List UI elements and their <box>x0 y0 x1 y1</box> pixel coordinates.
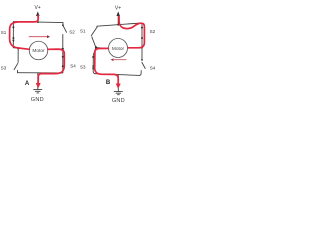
svg-text:S2: S2 <box>69 29 75 34</box>
svg-text:GND: GND <box>31 97 44 103</box>
svg-text:GND: GND <box>112 98 125 104</box>
svg-text:B: B <box>106 80 111 86</box>
svg-text:Motor: Motor <box>112 46 125 52</box>
svg-text:V+: V+ <box>34 5 40 11</box>
svg-text:S1: S1 <box>1 30 7 35</box>
svg-text:S4: S4 <box>150 65 156 70</box>
svg-text:A: A <box>25 81 30 87</box>
svg-text:S4: S4 <box>70 64 76 69</box>
svg-text:S1: S1 <box>80 29 86 34</box>
svg-text:S3: S3 <box>80 65 86 70</box>
svg-text:Motor: Motor <box>32 48 45 54</box>
svg-text:S3: S3 <box>1 65 7 70</box>
svg-text:S2: S2 <box>150 29 156 34</box>
svg-text:V+: V+ <box>115 5 121 11</box>
